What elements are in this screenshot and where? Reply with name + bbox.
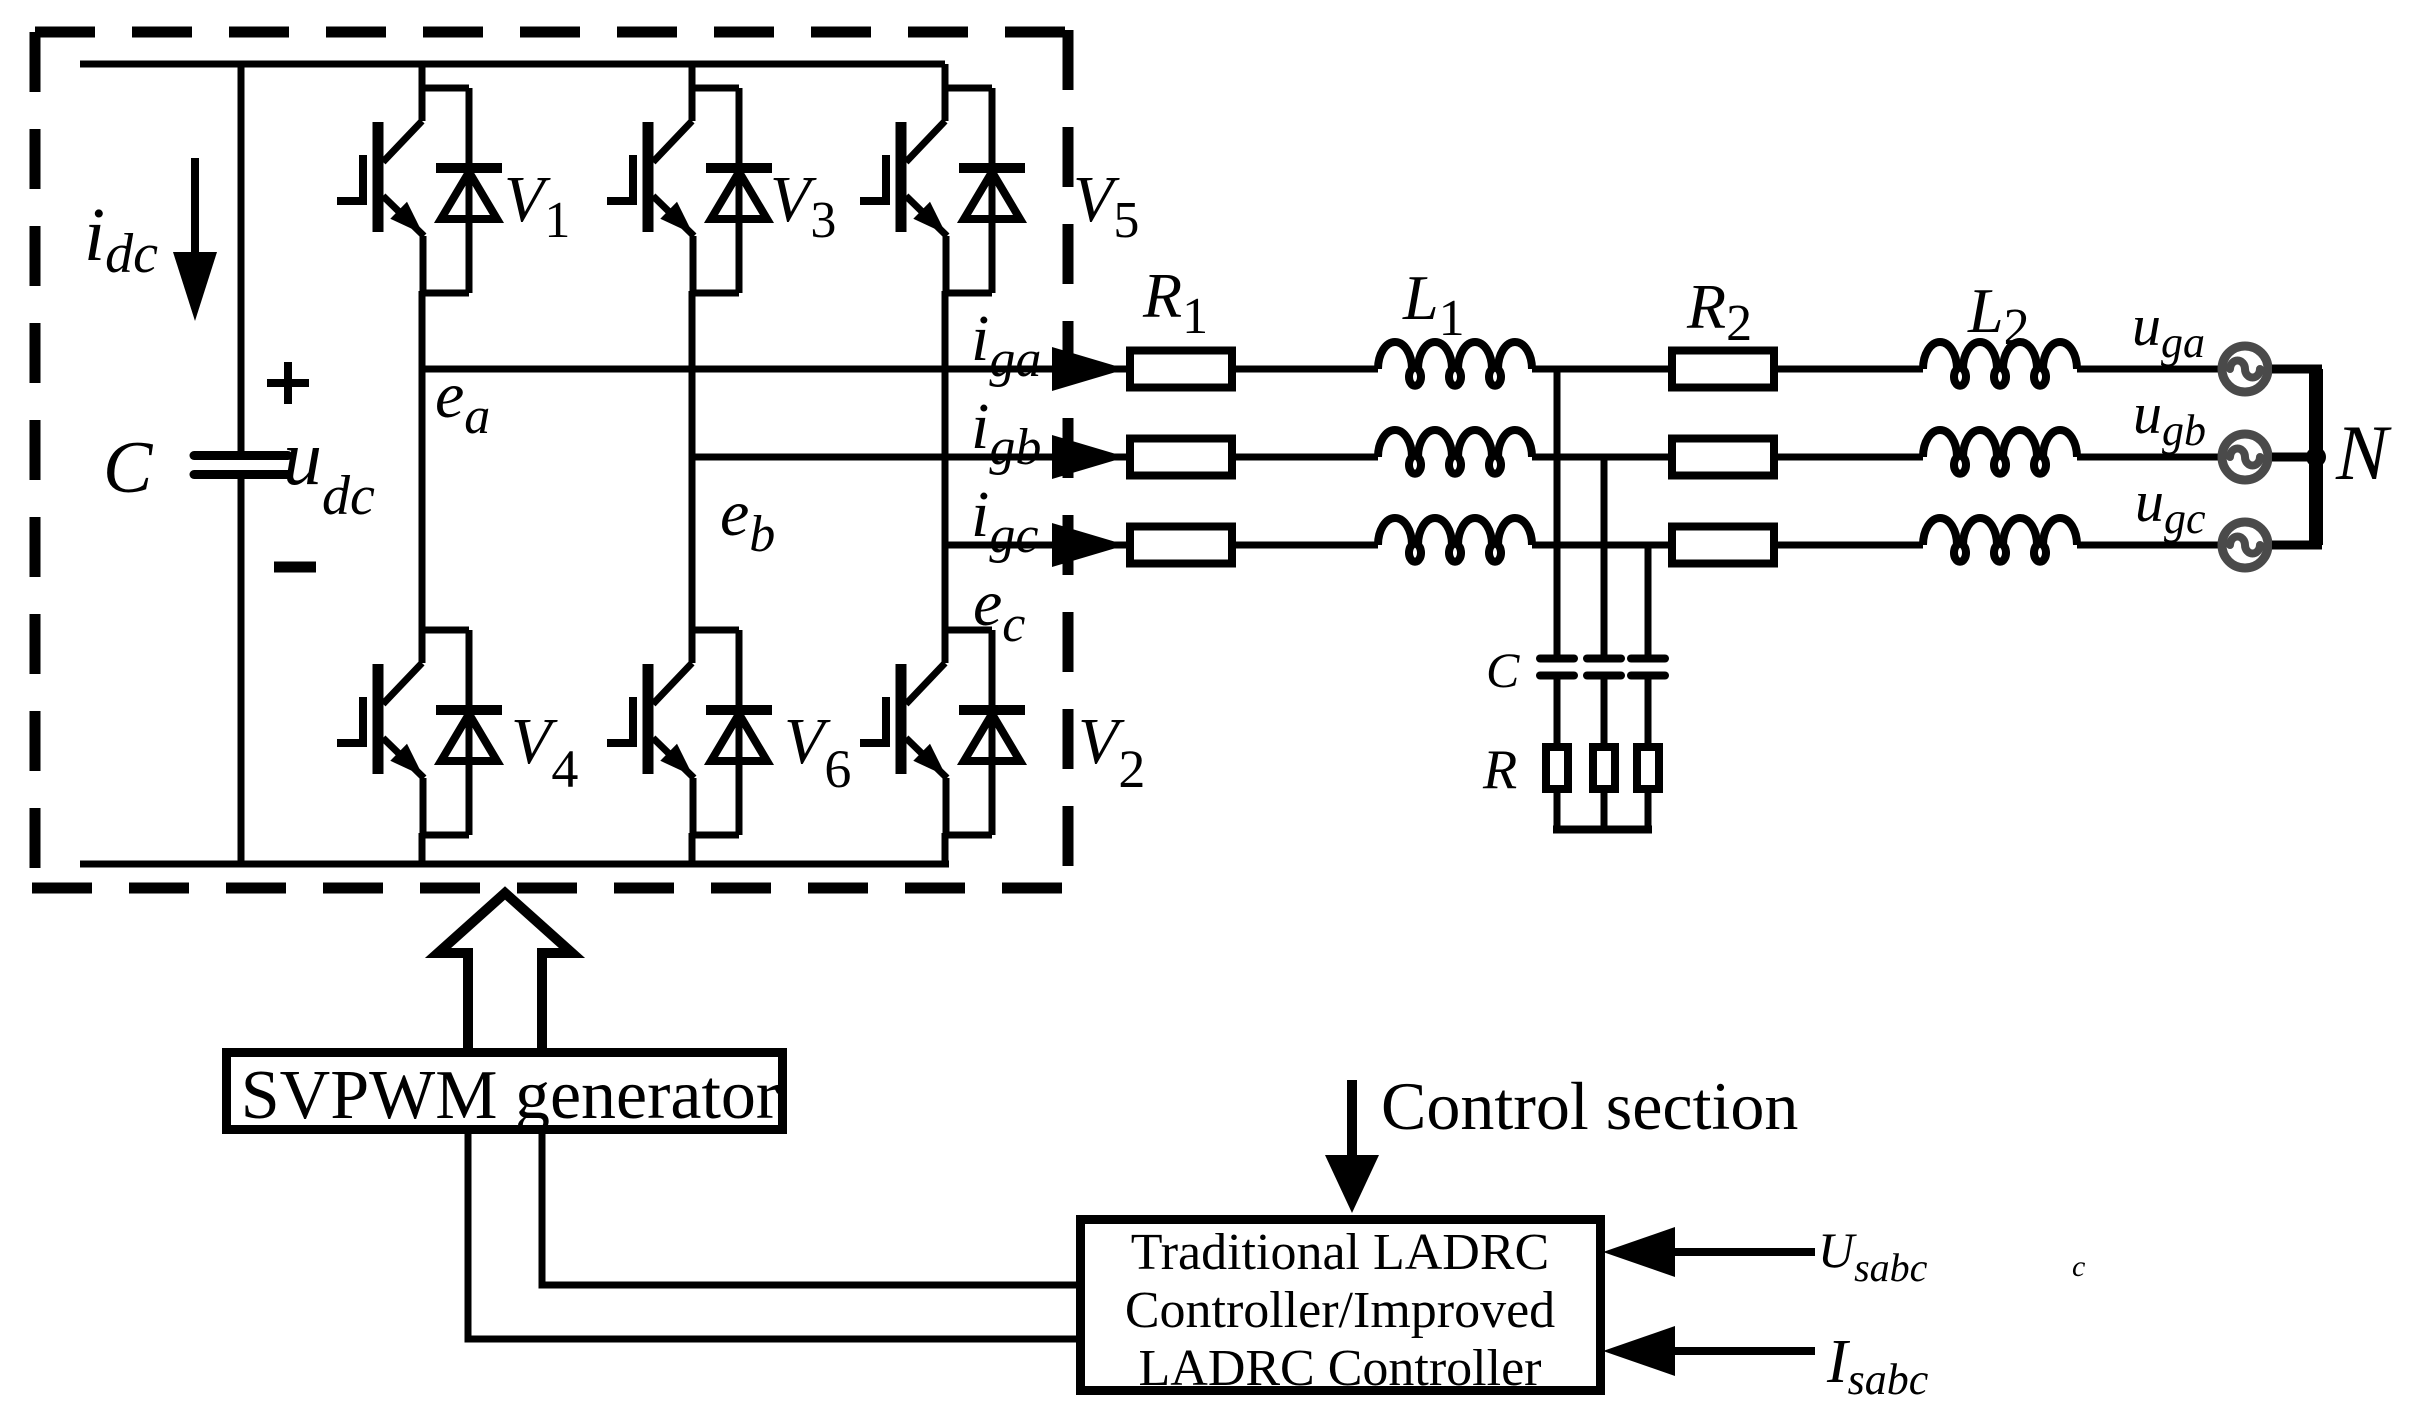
- wire: phase c output line: [945, 542, 1126, 549]
- dashed rectifier/inverter section border: [32, 30, 1068, 888]
- wire L2-source phase c: [2077, 542, 2220, 549]
- arrow U_sabc input: [1603, 1227, 1815, 1277]
- arrow: control section input: [1325, 1080, 1379, 1213]
- resistor R2 phase a: [1672, 351, 1774, 388]
- wire: phase leg B trunk: [689, 64, 696, 864]
- svg-text:Usabc: Usabc: [1818, 1222, 1928, 1290]
- wire: N bus vertical: [2309, 369, 2323, 545]
- transistor V1: [337, 84, 502, 293]
- wire R2-L2 phase b: [1778, 454, 1923, 461]
- svg-text:idc: idc: [84, 193, 158, 285]
- resistor R2 phase c: [1672, 527, 1774, 564]
- wire R2-L2 phase a: [1778, 366, 1923, 373]
- inductor L2 phase c: [1923, 518, 2077, 562]
- transistor V4: [337, 626, 502, 835]
- capacitor C + resistor R shunt phase c: [1631, 659, 1665, 830]
- wire: phase leg A trunk: [419, 64, 426, 864]
- inductor L1 phase b: [1378, 430, 1532, 474]
- AC source u_gb: [2222, 434, 2268, 480]
- svg-text:ec: ec: [973, 567, 1025, 653]
- arrow: SVPWM gating block arrow: [438, 893, 572, 1050]
- wire source a to N bus: [2272, 365, 2322, 374]
- wire: top DC rail: [80, 61, 945, 68]
- svg-text:Control section: Control section: [1381, 1068, 1798, 1144]
- svg-text:V2: V2: [1078, 705, 1145, 799]
- arrow i_gc: [1052, 523, 1126, 567]
- node N junction dot: [2306, 447, 2326, 467]
- svg-text:ugc: ugc: [2135, 469, 2206, 543]
- capacitor C + resistor R shunt phase b: [1587, 659, 1621, 830]
- resistor R1 phase c: [1130, 527, 1232, 564]
- wire: controller output 2 to SVPWM: [468, 1134, 1076, 1339]
- svg-text:Controller/Improved: Controller/Improved: [1125, 1282, 1555, 1339]
- resistor R2 phase b: [1672, 439, 1774, 476]
- transistor V3: [607, 84, 772, 293]
- svg-text:udc: udc: [283, 414, 375, 527]
- svg-text:C: C: [103, 427, 154, 509]
- wire: phase b output line: [692, 454, 1126, 461]
- wire L1-R2 phase a: [1532, 366, 1672, 373]
- inductor L2 phase b: [1923, 430, 2077, 474]
- svg-text:Traditional LADRC: Traditional LADRC: [1131, 1224, 1549, 1281]
- wire: DC-link positive lead: [238, 64, 245, 451]
- wire: shunt branch phase a: [1554, 369, 1561, 660]
- arrow i_dc: [173, 158, 217, 321]
- AC source u_ga: [2222, 346, 2268, 392]
- svg-text:uga: uga: [2132, 293, 2205, 367]
- svg-text:eb: eb: [720, 477, 775, 563]
- transistor V5: [860, 84, 1025, 293]
- inductor L1 phase c: [1378, 518, 1532, 562]
- svg-text:V5: V5: [1073, 163, 1139, 249]
- svg-text:V1: V1: [504, 163, 570, 249]
- wire L1-R2 phase b: [1532, 454, 1672, 461]
- wire L1-R2 phase c: [1532, 542, 1672, 549]
- svg-text:LADRC Controller: LADRC Controller: [1139, 1340, 1542, 1397]
- wire source c to N bus: [2272, 541, 2322, 550]
- wire: shunt branch phase b: [1601, 457, 1608, 660]
- transistor V6: [607, 626, 772, 835]
- block LADRC controller: [1081, 1220, 1601, 1391]
- svg-text:L2: L2: [1967, 275, 2030, 356]
- transistor V2: [860, 626, 1025, 835]
- resistor R1 phase a: [1130, 351, 1232, 388]
- svg-text:V6: V6: [784, 705, 851, 799]
- wire R2-L2 phase c: [1778, 542, 1923, 549]
- svg-text:igc: igc: [971, 478, 1038, 564]
- capacitor C + resistor R shunt phase a: [1540, 659, 1574, 830]
- arrow I_sabc input: [1603, 1326, 1815, 1376]
- inductor L2 phase a: [1923, 342, 2077, 386]
- wire: shunt branch phase c: [1645, 545, 1652, 660]
- wire L2-source phase a: [2077, 366, 2220, 373]
- AC source u_gc: [2222, 522, 2268, 568]
- svg-text:N: N: [2335, 409, 2392, 496]
- wire: phase a output line: [422, 366, 1126, 373]
- svg-text:C: C: [1486, 642, 1520, 698]
- arrow i_gb: [1052, 435, 1126, 479]
- svg-text:SVPWM generator: SVPWM generator: [241, 1057, 780, 1134]
- wire: bottom DC rail: [80, 861, 949, 868]
- wire: phase leg C trunk: [942, 64, 949, 864]
- resistor R1 phase b: [1130, 439, 1232, 476]
- svg-text:Isabc: Isabc: [1826, 1328, 1929, 1404]
- wire: shunt bottom bus: [1553, 826, 1652, 834]
- svg-text:ugb: ugb: [2133, 381, 2206, 455]
- wire: controller output 1 to SVPWM: [542, 1134, 1076, 1285]
- svg-text:R2: R2: [1686, 271, 1752, 352]
- svg-text:L1: L1: [1402, 262, 1465, 347]
- svg-text:V3: V3: [770, 163, 836, 249]
- block SVPWM generator: [227, 1053, 783, 1130]
- label + polarity: [267, 362, 309, 404]
- svg-text:igb: igb: [971, 390, 1041, 476]
- capacitor C (DC link): [194, 456, 288, 475]
- svg-text:iga: iga: [971, 302, 1041, 388]
- wire R1-L1 phase a: [1236, 366, 1378, 373]
- inductor L1 phase a: [1378, 342, 1532, 386]
- svg-text:R1: R1: [1142, 260, 1208, 345]
- wire R1-L1 phase b: [1236, 454, 1378, 461]
- svg-text:R: R: [1482, 739, 1517, 801]
- label - polarity: [274, 562, 316, 573]
- svg-text:V4: V4: [511, 705, 578, 799]
- wire source b to N node: [2272, 453, 2316, 462]
- wire L2-source phase b: [2077, 454, 2220, 461]
- svg-text:c: c: [2072, 1250, 2085, 1283]
- wire: DC-link negative lead: [238, 479, 245, 864]
- wire R1-L1 phase c: [1236, 542, 1378, 549]
- arrow i_ga: [1052, 347, 1126, 391]
